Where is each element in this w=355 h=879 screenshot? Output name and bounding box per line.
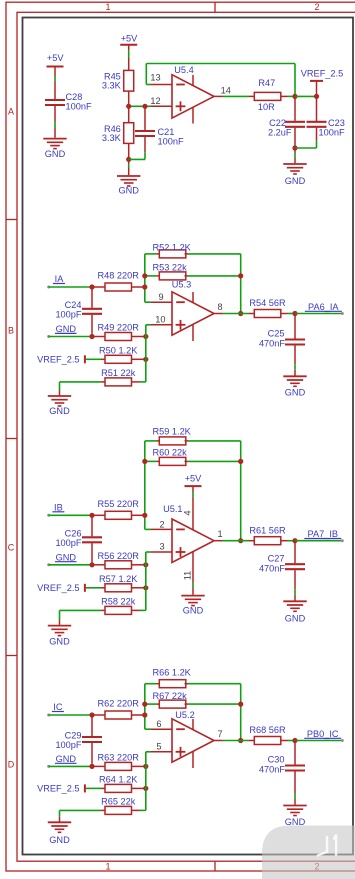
- svg-text:470nF: 470nF: [259, 563, 285, 573]
- svg-text:GND: GND: [118, 186, 139, 196]
- svg-text:14: 14: [221, 86, 231, 96]
- svg-text:R63 220R: R63 220R: [98, 752, 140, 762]
- svg-text:R62 220R: R62 220R: [98, 699, 140, 709]
- svg-text:GND: GND: [56, 754, 77, 764]
- svg-text:13: 13: [150, 72, 160, 82]
- svg-text:11: 11: [182, 571, 192, 581]
- svg-text:R60 22k: R60 22k: [153, 447, 188, 457]
- svg-text:R53 22k: R53 22k: [153, 262, 188, 272]
- svg-text:U5.1: U5.1: [163, 504, 182, 514]
- svg-text:R66 1.2K: R66 1.2K: [153, 668, 192, 678]
- svg-text:C30: C30: [268, 755, 285, 765]
- svg-text:+5V: +5V: [121, 34, 138, 44]
- svg-text:7: 7: [217, 729, 222, 739]
- svg-text:D: D: [8, 759, 15, 769]
- svg-text:U5.4: U5.4: [174, 65, 193, 75]
- svg-text:U5.3: U5.3: [172, 280, 191, 290]
- svg-text:PA6_IA: PA6_IA: [308, 302, 339, 312]
- svg-text:R50 1.2K: R50 1.2K: [99, 345, 138, 355]
- svg-text:R67 22k: R67 22k: [153, 691, 188, 701]
- svg-text:100nF: 100nF: [319, 128, 345, 138]
- svg-text:VREF_2.5: VREF_2.5: [37, 583, 79, 593]
- svg-text:GND: GND: [285, 613, 306, 623]
- svg-text:R47: R47: [258, 78, 275, 88]
- svg-text:R58 22k: R58 22k: [101, 596, 136, 606]
- svg-text:C: C: [8, 542, 15, 552]
- svg-text:5: 5: [156, 742, 161, 752]
- svg-text:3.3K: 3.3K: [102, 81, 122, 91]
- svg-text:100pF: 100pF: [55, 538, 81, 548]
- svg-text:470nF: 470nF: [259, 339, 285, 349]
- svg-text:B: B: [8, 325, 14, 335]
- svg-text:1: 1: [105, 2, 110, 12]
- svg-text:6: 6: [156, 719, 161, 729]
- svg-text:100pF: 100pF: [55, 740, 81, 750]
- svg-text:GND: GND: [56, 552, 77, 562]
- svg-text:3.3K: 3.3K: [102, 133, 122, 143]
- svg-text:GND: GND: [285, 388, 306, 398]
- svg-text:PB0_IC: PB0_IC: [307, 729, 339, 739]
- svg-text:3: 3: [159, 542, 164, 552]
- svg-text:10: 10: [155, 315, 165, 325]
- svg-text:GND: GND: [56, 324, 77, 334]
- svg-text:R56 220R: R56 220R: [98, 551, 140, 561]
- svg-text:2.2uF: 2.2uF: [268, 128, 292, 138]
- svg-text:100nF: 100nF: [158, 137, 184, 147]
- svg-text:100nF: 100nF: [66, 102, 92, 112]
- svg-text:PA7_IB: PA7_IB: [308, 529, 338, 539]
- svg-text:C29: C29: [65, 731, 82, 741]
- svg-text:IC: IC: [53, 702, 63, 712]
- svg-text:C28: C28: [66, 92, 83, 102]
- svg-text:C21: C21: [158, 127, 175, 137]
- svg-text:4: 4: [182, 510, 192, 515]
- svg-text:10R: 10R: [258, 102, 275, 112]
- svg-text:R59 1.2K: R59 1.2K: [153, 427, 192, 437]
- svg-text:A: A: [8, 106, 14, 116]
- svg-text:8: 8: [217, 302, 222, 312]
- svg-text:R68 56R: R68 56R: [249, 725, 286, 735]
- svg-text:GND: GND: [45, 149, 66, 159]
- svg-text:2: 2: [314, 2, 319, 12]
- svg-text:C22: C22: [269, 118, 286, 128]
- svg-text:2: 2: [159, 519, 164, 529]
- svg-text:GND: GND: [49, 636, 70, 646]
- svg-text:R54 56R: R54 56R: [249, 298, 286, 308]
- svg-text:GND: GND: [49, 406, 70, 416]
- svg-text:C24: C24: [65, 300, 82, 310]
- svg-text:100pF: 100pF: [55, 310, 81, 320]
- svg-text:R57 1.2K: R57 1.2K: [99, 574, 138, 584]
- svg-text:1: 1: [217, 529, 222, 539]
- svg-text:12: 12: [150, 96, 160, 106]
- svg-text:R55 220R: R55 220R: [98, 499, 140, 509]
- svg-text:R65 22k: R65 22k: [101, 796, 136, 806]
- svg-text:R49 220R: R49 220R: [98, 323, 140, 333]
- svg-text:IB: IB: [54, 503, 63, 513]
- svg-text:R52 1.2K: R52 1.2K: [153, 243, 192, 253]
- svg-text:GND: GND: [183, 606, 204, 616]
- svg-text:VREF_2.5: VREF_2.5: [37, 354, 79, 364]
- svg-text:R61 56R: R61 56R: [249, 525, 286, 535]
- svg-text:R48 220R: R48 220R: [98, 271, 140, 281]
- svg-text:U5.2: U5.2: [175, 710, 194, 720]
- svg-text:9: 9: [158, 292, 163, 302]
- svg-text:GND: GND: [49, 835, 70, 845]
- svg-text:GND: GND: [285, 176, 306, 186]
- svg-text:IA: IA: [55, 274, 65, 284]
- svg-text:C23: C23: [328, 118, 345, 128]
- svg-text:C26: C26: [65, 529, 82, 539]
- svg-text:R51 22k: R51 22k: [101, 368, 136, 378]
- svg-text:1: 1: [105, 862, 110, 872]
- svg-text:R64 1.2K: R64 1.2K: [99, 774, 138, 784]
- svg-text:470nF: 470nF: [259, 765, 285, 775]
- svg-text:+5V: +5V: [185, 474, 202, 484]
- svg-text:+5V: +5V: [47, 53, 64, 63]
- svg-text:C27: C27: [268, 553, 285, 563]
- svg-text:VREF_2.5: VREF_2.5: [301, 69, 343, 79]
- svg-text:VREF_2.5: VREF_2.5: [37, 784, 79, 794]
- svg-text:C25: C25: [268, 329, 285, 339]
